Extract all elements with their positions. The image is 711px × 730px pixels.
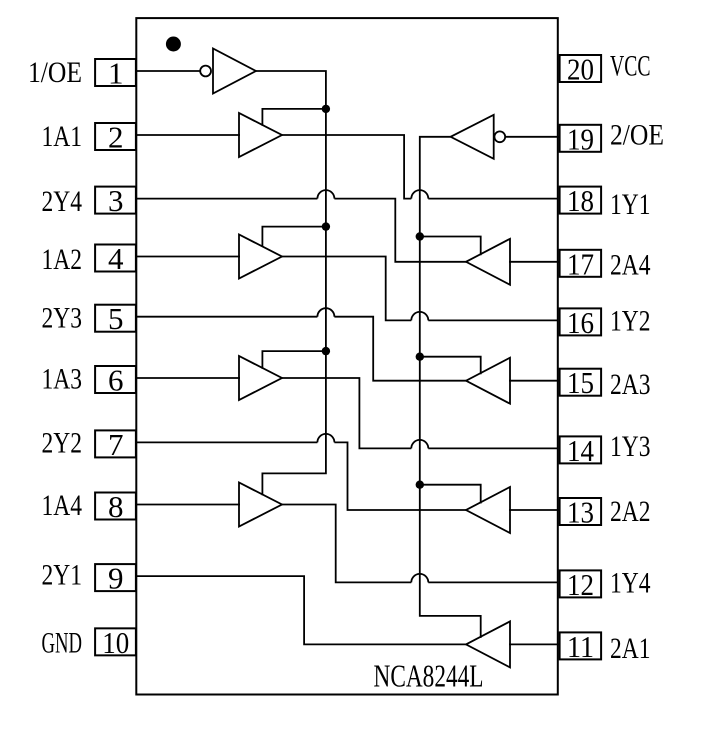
svg-text:VCC: VCC (610, 49, 651, 82)
svg-text:1Y4: 1Y4 (610, 566, 651, 599)
svg-text:9: 9 (108, 561, 124, 596)
svg-text:15: 15 (567, 365, 594, 400)
svg-text:20: 20 (567, 52, 594, 87)
svg-text:17: 17 (567, 246, 594, 281)
svg-text:3: 3 (108, 183, 124, 218)
svg-text:2Y4: 2Y4 (42, 185, 83, 218)
svg-text:14: 14 (567, 433, 594, 468)
svg-text:6: 6 (108, 363, 124, 398)
svg-text:18: 18 (567, 183, 594, 218)
svg-text:NCA8244L: NCA8244L (374, 658, 484, 694)
svg-text:4: 4 (108, 241, 124, 276)
svg-text:1/OE: 1/OE (28, 56, 82, 89)
svg-text:2/OE: 2/OE (610, 118, 664, 151)
svg-text:1Y3: 1Y3 (610, 430, 651, 463)
svg-text:2: 2 (108, 120, 124, 155)
svg-text:8: 8 (108, 489, 124, 524)
svg-text:13: 13 (567, 495, 594, 530)
svg-text:2A1: 2A1 (610, 632, 651, 665)
svg-text:11: 11 (567, 629, 594, 664)
svg-text:1Y2: 1Y2 (610, 304, 651, 337)
svg-text:1: 1 (108, 56, 124, 91)
svg-text:2A4: 2A4 (610, 248, 651, 281)
svg-text:2Y2: 2Y2 (42, 426, 83, 459)
svg-text:10: 10 (102, 625, 129, 660)
svg-text:1Y1: 1Y1 (610, 188, 651, 221)
svg-text:7: 7 (108, 427, 124, 462)
svg-text:2A2: 2A2 (610, 495, 651, 528)
svg-text:19: 19 (567, 121, 594, 156)
svg-text:2Y3: 2Y3 (42, 301, 83, 334)
svg-text:5: 5 (108, 301, 124, 336)
svg-text:2Y1: 2Y1 (42, 559, 83, 592)
svg-text:GND: GND (42, 626, 83, 659)
svg-text:2A3: 2A3 (610, 368, 651, 401)
svg-text:1A3: 1A3 (42, 363, 83, 396)
svg-text:16: 16 (567, 305, 594, 340)
svg-text:12: 12 (567, 567, 594, 602)
svg-text:1A2: 1A2 (42, 243, 83, 276)
svg-text:1A1: 1A1 (42, 120, 83, 153)
svg-text:1A4: 1A4 (42, 489, 83, 522)
